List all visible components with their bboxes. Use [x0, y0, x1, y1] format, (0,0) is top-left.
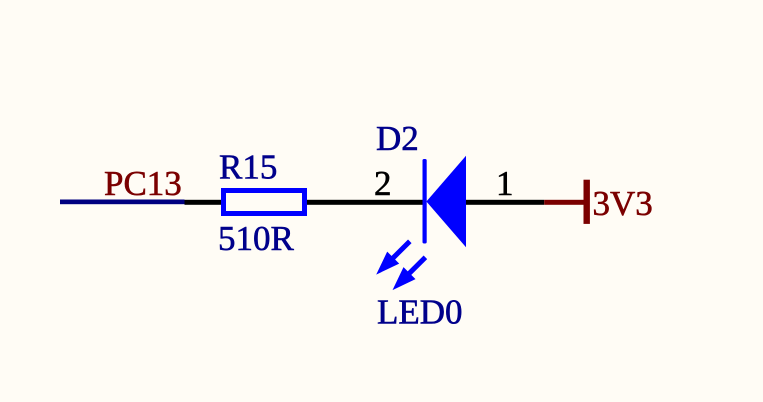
svg-text:3V3: 3V3 [593, 184, 653, 223]
svg-text:2: 2 [374, 164, 392, 203]
wire resistor pin 2 to LED pin 2 (black) [307, 200, 423, 205]
wire LED pin 1 (black) [466, 200, 544, 205]
wire to power port 3V3 (dark red) [544, 200, 583, 205]
power port 3V3 bar [584, 180, 590, 224]
LED D2 emission arrow 2 [393, 257, 426, 290]
svg-text:1: 1 [496, 164, 514, 203]
resistor R15 body [224, 191, 305, 214]
LED D2 emission arrow 1 [376, 241, 410, 274]
svg-text:510R: 510R [218, 219, 295, 258]
svg-text:R15: R15 [219, 148, 277, 187]
svg-text:D2: D2 [376, 119, 419, 158]
LED D2 cathode bar [423, 159, 427, 244]
wire net PC13 (blue wire segment) [60, 200, 185, 205]
svg-text:PC13: PC13 [104, 164, 182, 203]
wire resistor pin 1 (black) [185, 200, 222, 205]
svg-text:LED0: LED0 [377, 292, 463, 331]
LED D2 triangle [426, 156, 466, 248]
